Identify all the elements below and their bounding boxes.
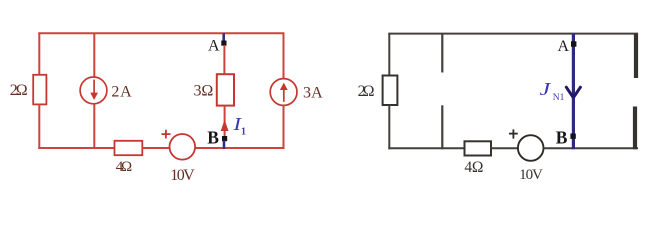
svg-text:A: A [558, 38, 570, 55]
wire: open branch (3A removed) top thick bar [634, 34, 638, 78]
node A dot (left circuit) [221, 41, 226, 46]
current source 3A circle [270, 79, 297, 106]
wire: right circuit left vertical upper [388, 34, 390, 77]
resistor 4ohm left circuit [115, 141, 143, 155]
svg-text:2A: 2A [111, 83, 132, 100]
wire: open branch (3A removed) bottom thick bar [633, 107, 637, 150]
wire: 3A branch upper [283, 33, 285, 80]
node A dot (right circuit) [571, 41, 576, 46]
wire: right circuit bottom horizontal left of 4ohm [388, 147, 464, 149]
svg-text:2Ω: 2Ω [10, 82, 28, 99]
svg-text:4Ω: 4Ω [116, 159, 133, 175]
svg-text:3Ω: 3Ω [194, 82, 214, 99]
plus sign of 10V left [162, 130, 171, 139]
node B dot (right circuit) [570, 134, 575, 139]
wire: bottom between 10V and node B branch [195, 147, 284, 149]
current source 2A circle [80, 77, 107, 104]
wire: blue stub node B to bottom wire [223, 141, 226, 150]
svg-text:B: B [556, 127, 568, 147]
current source 2A arrow (down) [90, 80, 98, 101]
svg-text:4Ω: 4Ω [464, 159, 483, 176]
svg-text:2Ω: 2Ω [358, 83, 375, 100]
wire: 2A branch upper [93, 33, 95, 78]
resistor 2ohm left circuit [33, 75, 46, 105]
svg-text:10V: 10V [170, 167, 195, 184]
wire: left circuit top horizontal [38, 32, 284, 34]
arrowhead of J (down) [566, 87, 580, 96]
wire: open branch (2A removed) bottom stub [441, 105, 443, 149]
wire: right circuit top horizontal [388, 33, 638, 35]
svg-text:B: B [207, 128, 219, 148]
wire: 3ohm to node B (red, with current arrow I1 up) [224, 106, 226, 137]
wire: left circuit left vertical (upper part) [38, 33, 40, 76]
wire: bottom between 4ohm and 10V right [491, 147, 518, 149]
svg-text:1: 1 [241, 127, 246, 138]
plus sign of 10V right [509, 129, 518, 138]
wire: right circuit left vertical lower [388, 105, 390, 149]
wire: bottom between 10V and right corner [544, 147, 639, 149]
wire: node A to 3ohm resistor [223, 45, 225, 75]
wire: left circuit bottom horizontal (left of 4ohm) [38, 147, 114, 149]
wire: blue stub top wire to node A [222, 33, 225, 42]
wire: blue branch line A to B [572, 34, 575, 150]
svg-text:A: A [208, 38, 220, 55]
resistor 3ohm left circuit [217, 74, 234, 105]
wire: left circuit left vertical (lower part) [38, 104, 40, 149]
svg-text:10V: 10V [519, 167, 543, 183]
voltage source 10V right circuit [518, 135, 544, 161]
current arrow I1 (red, pointing up) [221, 120, 229, 131]
current source 3A arrow (up) [280, 83, 288, 102]
wire: bottom between 4ohm and 10V source [142, 147, 170, 149]
resistor 4ohm right circuit [465, 141, 492, 155]
svg-text:J: J [540, 79, 553, 99]
wire: 2A branch lower [93, 104, 95, 150]
wire: open branch (2A removed) top stub [441, 34, 443, 73]
resistor 2ohm right circuit [383, 76, 398, 106]
node B dot (left circuit) [222, 136, 227, 141]
voltage source 10V left circuit [170, 134, 196, 160]
svg-text:3A: 3A [303, 84, 323, 101]
wire: 3A branch lower [283, 105, 285, 149]
svg-text:N1: N1 [553, 93, 565, 103]
